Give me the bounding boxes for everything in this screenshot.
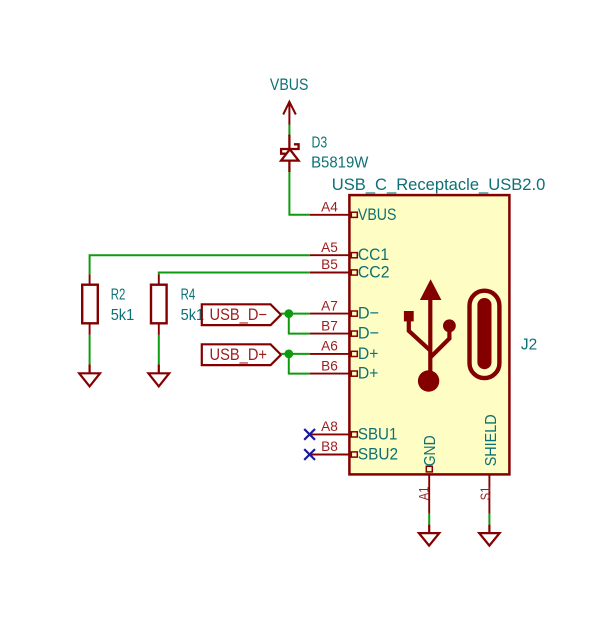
svg-text:D3: D3 xyxy=(312,135,328,152)
pin A4 VBUS xyxy=(310,199,397,224)
global label USB_D+ xyxy=(202,344,281,365)
svg-text:5k1: 5k1 xyxy=(181,307,205,324)
svg-text:A4: A4 xyxy=(321,199,338,215)
pin B6 D+ xyxy=(310,357,379,382)
global label USB_D- xyxy=(202,304,281,325)
svg-text:SBU1: SBU1 xyxy=(358,424,398,443)
USB-C connector face xyxy=(470,291,500,378)
wire junction to pin B6 xyxy=(289,354,310,374)
svg-text:USB_D+: USB_D+ xyxy=(210,346,268,364)
junction (D- net) xyxy=(284,309,293,318)
wire GND pin to ground xyxy=(428,514,430,525)
ground symbol (R2) xyxy=(79,364,100,386)
svg-text:B8: B8 xyxy=(321,438,338,454)
pin B7 D- xyxy=(310,317,379,342)
wire R2 to ground xyxy=(89,335,91,365)
svg-text:D+: D+ xyxy=(358,364,379,383)
svg-text:GND: GND xyxy=(422,435,439,466)
svg-text:USB_D−: USB_D− xyxy=(210,306,268,324)
svg-text:B5819W: B5819W xyxy=(311,154,369,171)
ground symbol (GND pin) xyxy=(419,525,439,546)
ground symbol (R4) xyxy=(148,364,169,386)
pin A6 D+ xyxy=(310,338,379,363)
wire VBUS to D3 xyxy=(288,125,290,137)
wire R4 to ground xyxy=(158,335,160,365)
svg-text:D+: D+ xyxy=(358,344,379,363)
svg-text:D−: D− xyxy=(358,324,379,343)
svg-text:SHIELD: SHIELD xyxy=(483,414,500,466)
pin A1 GND xyxy=(417,435,439,514)
svg-text:D−: D− xyxy=(358,304,379,323)
no-connect A8 xyxy=(304,429,315,440)
svg-text:B5: B5 xyxy=(321,256,338,272)
svg-text:J2: J2 xyxy=(521,336,537,353)
pin B8 SBU2 xyxy=(310,438,398,463)
svg-text:B6: B6 xyxy=(321,357,338,373)
svg-text:CC2: CC2 xyxy=(358,263,390,282)
wire D3 to pin A4 xyxy=(289,172,310,215)
wire R2 to pin A5 xyxy=(90,255,310,274)
svg-text:CC1: CC1 xyxy=(358,245,389,264)
ground symbol (SHIELD pin) xyxy=(479,525,499,546)
svg-text:A5: A5 xyxy=(321,239,338,255)
svg-text:A1: A1 xyxy=(417,487,432,501)
svg-text:SBU2: SBU2 xyxy=(358,445,398,464)
no-connect B8 xyxy=(304,449,315,460)
svg-text:VBUS: VBUS xyxy=(270,75,309,94)
power symbol VBUS xyxy=(283,102,296,125)
pin A8 SBU1 xyxy=(310,418,398,443)
wire USB_D+ to pin A6 xyxy=(281,353,310,355)
wire USB_D- to pin A7 xyxy=(281,313,310,315)
connector J2 body xyxy=(349,195,509,474)
svg-text:VBUS: VBUS xyxy=(358,205,397,224)
svg-text:B7: B7 xyxy=(321,317,338,333)
junction (D+ net) xyxy=(284,350,293,359)
svg-text:R2: R2 xyxy=(111,287,126,304)
wire SHIELD pin to ground xyxy=(488,514,490,525)
svg-text:S1: S1 xyxy=(478,487,493,501)
svg-text:USB_C_Receptacle_USB2.0: USB_C_Receptacle_USB2.0 xyxy=(332,175,546,194)
svg-text:A7: A7 xyxy=(321,297,338,313)
resistor R4 xyxy=(151,274,167,335)
svg-text:A6: A6 xyxy=(321,338,338,354)
svg-text:R4: R4 xyxy=(181,287,196,304)
svg-text:5k1: 5k1 xyxy=(111,307,135,324)
diode D3 xyxy=(281,135,299,172)
wire junction to pin B7 xyxy=(289,314,310,334)
pin A5 CC1 xyxy=(310,239,389,264)
svg-text:A8: A8 xyxy=(321,418,338,434)
pin A7 D- xyxy=(310,297,379,322)
pin B5 CC2 xyxy=(310,256,390,281)
resistor R2 xyxy=(82,274,98,335)
wire R4 to pin B5 xyxy=(159,273,310,275)
USB logo xyxy=(404,279,456,391)
pin S1 SHIELD xyxy=(478,414,500,513)
